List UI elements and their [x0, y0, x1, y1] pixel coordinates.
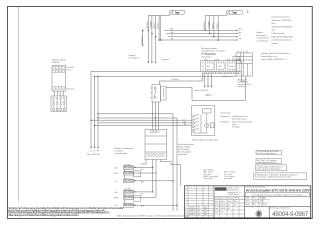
logo [215, 187, 227, 190]
wire motor group B risers [205, 14, 227, 40]
svg-text:Funktion: Funktion [232, 126, 240, 129]
control unit U1 [145, 129, 167, 159]
svg-text:Ha: Ha [265, 204, 267, 206]
svg-text:werden.: werden. [272, 43, 280, 45]
svg-text:oder: oder [272, 30, 276, 32]
svg-text:Name: Name [253, 201, 257, 203]
wire P2 run [98, 117, 177, 119]
cable tag X2 [226, 10, 242, 14]
framed note 1 [256, 150, 281, 155]
svg-text:Zuleitung: Zuleitung [140, 36, 143, 43]
svg-text:STOP: STOP [114, 173, 120, 175]
svg-text:Regenfühlers, etc.: Regenfühlers, etc. [261, 55, 278, 58]
svg-text:Raumthermostat: Raumthermostat [232, 118, 247, 121]
svg-text:Motorzuleitungen: Motorzuleitungen [202, 47, 217, 50]
wire TS link [160, 74, 203, 85]
svg-text:8.08.08: 8.08.08 [220, 208, 225, 210]
wire H1 mains L1 run [91, 70, 201, 72]
wire tall bus A [172, 114, 174, 211]
note text safety [178, 143, 195, 156]
svg-text:300: 300 [176, 13, 179, 15]
svg-text:Gruppe 1: Gruppe 1 [162, 58, 170, 61]
wire motor group A risers [148, 14, 169, 62]
svg-text:EMS - Steuerautomatik GmbH P: EMS - Steuerautomatik GmbH Pro auto an d… [117, 215, 189, 218]
wire row to bus [134, 172, 157, 174]
svg-text:45004-9-0987: 45004-9-0987 [272, 211, 309, 218]
left socket label [52, 60, 66, 65]
mains wire N [94, 76, 96, 148]
svg-text:14.08.08: 14.08.08 [189, 207, 195, 209]
svg-text:Auf: Auf [207, 65, 210, 68]
svg-text:Ab: Ab [219, 65, 221, 68]
wire strip stubs [124, 194, 126, 204]
svg-text:4 Antriebe C310/230V: 4 Antriebe C310/230V [272, 19, 292, 22]
wire Q2 Auf to selector [98, 122, 192, 124]
svg-text:Stellung 1:: Stellung 1: [221, 120, 231, 123]
bus AUF [164, 29, 238, 31]
framed note 4 [254, 173, 307, 179]
note text wind sensor [261, 52, 291, 61]
svg-text:Mu: Mu [198, 214, 200, 216]
wire unit drop B [155, 160, 157, 198]
svg-text:WS = weiss: WS = weiss [204, 178, 214, 180]
svg-text:Gepr.: Gepr. [215, 208, 219, 210]
svg-text:Mu: Mu [198, 209, 200, 211]
svg-text:Ab: Ab [171, 31, 173, 34]
wire switch to relay link [241, 72, 245, 82]
junction dots group A on buses [148, 30, 162, 41]
svg-text:Andere: Andere [257, 31, 264, 34]
rotated wire labels group A [146, 21, 160, 29]
svg-text:14.08.08: 14.08.08 [189, 212, 195, 214]
svg-text:4327: 4327 [204, 207, 208, 209]
wire K4 drops to control unit [152, 102, 158, 129]
svg-text:L1: L1 [184, 119, 186, 121]
svg-text:enthalten: enthalten [238, 85, 245, 88]
svg-text:Mu: Mu [198, 212, 200, 214]
terminal row X1 [124, 166, 134, 170]
svg-text:Zu: Zu [116, 181, 118, 183]
label wall switch [202, 53, 217, 58]
svg-text:Hand. 230V AC: Hand. 230V AC [195, 89, 209, 92]
svg-text:M: M [206, 125, 208, 128]
wire row to bus [134, 180, 174, 182]
svg-text:Raumtemperaturregler: Raumtemperaturregler [232, 120, 252, 123]
svg-text:Ha: Ha [228, 208, 230, 210]
svg-text:und Endstunden arbeiten.: und Endstunden arbeiten. [257, 161, 277, 164]
cable tag X1 [169, 10, 185, 14]
svg-text:Ein: Ein [141, 194, 144, 196]
wire row to bus [134, 191, 153, 193]
svg-text:230 V: 230 V [206, 95, 212, 97]
svg-text:300: 300 [234, 13, 237, 15]
svg-text:14.08.08: 14.08.08 [189, 209, 195, 211]
svg-text:GN/GE 2: GN/GE 2 [217, 23, 219, 29]
arrows group A to Gruppe 1 [148, 62, 157, 64]
svg-text:Netz 230V AC: Netz 230V AC [87, 153, 101, 156]
svg-text:Bearb.: Bearb. [215, 204, 220, 206]
node label Gruppe 1 [129, 54, 170, 61]
wire labels L1 Auf Ab [184, 119, 187, 126]
disclaimer text [8, 206, 124, 217]
wire H2 mains N run [95, 75, 237, 77]
svg-text:Ab: Ab [184, 123, 186, 126]
svg-text:Der Plan so dort arbeiten.: Der Plan so dort arbeiten. [257, 152, 277, 155]
title block [185, 186, 311, 219]
bus N [168, 36, 238, 38]
svg-text:siehe 43204-9-0986 Bl.1 + 2: siehe 43204-9-0986 Bl.1 + 2 [261, 59, 288, 61]
note text motor types [257, 31, 270, 42]
framed note 3 [256, 165, 287, 171]
svg-text:1: 1 [264, 198, 265, 200]
bus AB [166, 33, 238, 35]
wire row to bus [134, 167, 153, 169]
svg-text:einstecken.: einstecken. [178, 153, 188, 156]
svg-text:4327: 4327 [204, 212, 208, 214]
wire P1 run [98, 113, 173, 115]
node labels L1 N PE [90, 150, 100, 152]
wire step box [134, 171, 141, 177]
svg-text:L-70-230: L-70-230 [124, 189, 131, 191]
wire K2 to contactor stubs [54, 91, 63, 96]
wire row to bus [134, 204, 178, 206]
note text multiple units [115, 147, 134, 155]
svg-text:STOP: STOP [114, 197, 120, 199]
svg-text:je Gruppe: je Gruppe [223, 178, 232, 180]
svg-text:5 Rohrantriebe: 5 Rohrantriebe [272, 32, 286, 35]
bus PE [161, 39, 238, 41]
svg-text:Norm: Norm [215, 212, 220, 214]
svg-text:durch zugelassene Elektrofirma: durch zugelassene Elektrofirma. [257, 168, 282, 171]
bus labels left [170, 28, 174, 41]
wire Q3 Ab to selector [95, 125, 192, 127]
arrows hand control [204, 86, 213, 88]
mains end arrows [90, 147, 99, 149]
svg-text:Anschlussplan E70 mit E-Antrie: Anschlussplan E70 mit E-Antrieb 230V [246, 188, 311, 192]
terminal row X2 [124, 171, 134, 175]
wire row to bus [134, 196, 157, 198]
wire tall bus B [176, 118, 178, 211]
stamp [256, 210, 262, 217]
svg-text:Stellung 0:: Stellung 0: [221, 115, 231, 118]
terminal row X6 [124, 203, 134, 207]
svg-text:Steuerung: Steuerung [202, 56, 211, 59]
note text selector positions [221, 112, 253, 129]
svg-text:D-72660 Beuren: D-72660 Beuren [227, 194, 239, 196]
svg-text:Ein: Ein [141, 169, 144, 171]
note text relay plugged [238, 79, 252, 89]
svg-text:Mu: Mu [228, 204, 230, 206]
svg-text:GmbH + Co. KG: GmbH + Co. KG [227, 188, 239, 190]
wire strip stubs [124, 170, 126, 180]
svg-text:parallel angeschlossen: parallel angeschlossen [272, 40, 292, 42]
wall switch button labels [207, 65, 235, 68]
svg-text:anschliessen.: anschliessen. [257, 40, 270, 42]
svg-text:230V AC: 230V AC [52, 61, 60, 64]
svg-text:TS-Sport: TS-Sport [171, 78, 179, 81]
framed note 2 [256, 159, 281, 164]
wire Q1 L1 to selector [91, 119, 192, 121]
svg-text:4327: 4327 [204, 214, 208, 216]
svg-text:14.08.08: 14.08.08 [189, 214, 195, 216]
svg-text:4 Antriebe E250M/230V: 4 Antriebe E250M/230V [272, 25, 294, 28]
svg-text:entsprechend: entsprechend [257, 37, 269, 40]
svg-text:bis Gruppe 4: bis Gruppe 4 [129, 57, 140, 60]
wall switch S1 [201, 59, 242, 72]
svg-text:Regen: Regen [229, 66, 235, 68]
svg-text:Auf: Auf [170, 28, 173, 31]
svg-text:Gruppe 1: Gruppe 1 [129, 54, 137, 57]
svg-text:E440, E640, E660/230V: E440, E640, E660/230V [272, 36, 294, 38]
relay socket K2 [52, 66, 66, 92]
mains wire L1 [90, 71, 92, 148]
svg-text:1/1: 1/1 [253, 198, 255, 200]
wire K4 to relay loop [166, 76, 246, 101]
svg-text:4.08: 4.08 [260, 201, 263, 203]
svg-text:Ab: Ab [239, 31, 241, 34]
svg-text:Tag: Tag [215, 201, 218, 203]
svg-text:L-70-230: L-70-230 [124, 164, 131, 166]
relay K4 interface [151, 85, 167, 103]
svg-text:Alle Leitungen vor Arbeiten fr: Alle Leitungen vor Arbeiten freischalten… [8, 213, 80, 217]
wall switch terminal row [202, 72, 240, 74]
wire unit bottom right steps [161, 160, 181, 186]
bus labels right [239, 28, 242, 41]
svg-text:Mehrere Lüfterkästen: Mehrere Lüfterkästen [115, 147, 134, 150]
svg-text:4.08.08: 4.08.08 [220, 204, 225, 206]
selector enclosure S2 [192, 106, 215, 136]
junction dots group B on buses [204, 30, 219, 41]
svg-text:anschliessbar.: anschliessbar. [115, 153, 128, 155]
feeder stub wire [142, 30, 144, 45]
svg-text:3: 3 [247, 10, 249, 14]
wire step box [134, 195, 141, 201]
svg-text:L1: L1 [90, 150, 92, 152]
svg-text:4327: 4327 [204, 209, 208, 211]
svg-text:Zeichnungs- / Sachnummer: Zeichnungs- / Sachnummer [270, 207, 290, 209]
svg-text:Es können maximal: Es können maximal [272, 17, 290, 19]
contact diagram K2 [51, 96, 67, 112]
bus arrowheads right [237, 30, 238, 41]
terminal row X4 [124, 190, 134, 194]
svg-text:Motortypen: Motortypen [257, 34, 267, 37]
svg-text:Raumtemperaturregler STB: Raumtemperaturregler STB [192, 138, 218, 141]
wire hand control drops [205, 74, 212, 87]
relay K2 labels [67, 66, 74, 91]
svg-text:mit Tastenfachmontur und Regen: mit Tastenfachmontur und Regen-/Wind in … [252, 193, 304, 196]
terminal row X3 [124, 179, 134, 183]
svg-text:Lüfterkasten nach: Lüfterkasten nach [232, 115, 248, 118]
svg-text:1/1: 1/1 [234, 204, 236, 206]
svg-text:Relais: Relais [67, 69, 72, 71]
svg-text:Für Anschluss des Windfühlers,: Für Anschluss des Windfühlers, [261, 52, 291, 55]
svg-text:Name: Name [228, 201, 232, 203]
note text motor cable [201, 47, 226, 55]
svg-text:Auf: Auf [239, 28, 242, 31]
svg-text:8.08: 8.08 [260, 204, 263, 206]
selector internals [192, 109, 214, 133]
wire unit bottom left step [141, 160, 147, 165]
svg-text:GN/GE 1: GN/GE 1 [158, 23, 160, 29]
mains wire PE [97, 76, 99, 148]
note text max drives [272, 17, 294, 45]
relay K3 remote [233, 51, 253, 77]
svg-text:Umschalter: Umschalter [221, 112, 231, 115]
svg-text:je eine Gruppe, und Berührungs: je eine Gruppe, und Berührungsschutz bea… [254, 176, 292, 179]
terminal row X5 [124, 196, 134, 200]
svg-text:oder: oder [272, 23, 276, 25]
wire unit drop A [152, 160, 154, 192]
rotated wire labels group B [203, 21, 219, 29]
svg-text:Mu: Mu [198, 207, 200, 209]
svg-text:Relais K2: Relais K2 [67, 89, 74, 91]
legend wire colours [204, 169, 236, 181]
